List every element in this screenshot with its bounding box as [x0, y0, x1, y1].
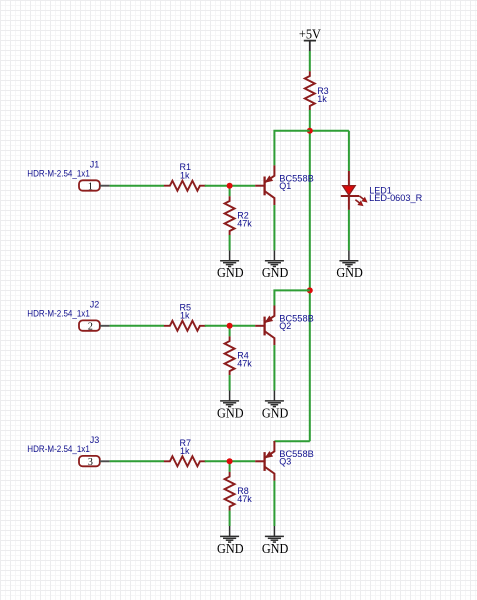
junction node at R7/R8/Q3 base — [227, 458, 233, 464]
svg-text:J3: J3 — [90, 435, 100, 445]
ground GND under Q2 — [262, 391, 289, 421]
wire Q2 collector to GND — [273, 345, 275, 390]
wire node to Q3 base — [230, 460, 256, 462]
ground GND under Q3 — [262, 526, 289, 556]
wire rail to Q2 emitter — [274, 290, 309, 305]
wire Q3 collector to GND — [273, 481, 275, 526]
resistor R5 1k — [164, 302, 206, 331]
resistor R3 1k — [305, 71, 329, 110]
ground GND under Q1 — [262, 250, 289, 280]
wire node to R2 — [229, 186, 231, 197]
svg-text:Q3: Q3 — [279, 457, 291, 467]
resistor R4 47k — [225, 336, 253, 375]
wire J3 pin to R7 — [110, 460, 164, 462]
wire R4 to GND — [229, 375, 231, 390]
svg-text:1k: 1k — [180, 171, 190, 181]
junction node rail to Q2 feed — [307, 287, 313, 293]
resistor R2 47k — [225, 196, 253, 235]
svg-text:47k: 47k — [237, 494, 252, 504]
junction node below R3 — [307, 128, 313, 134]
svg-text:LED-0603_R: LED-0603_R — [369, 193, 423, 203]
resistor R7 1k — [164, 438, 206, 467]
wire node to LED anode — [348, 131, 350, 171]
ground GND under R8 — [217, 526, 244, 556]
svg-text:1k: 1k — [180, 311, 190, 321]
svg-text:J2: J2 — [90, 300, 100, 310]
wire R7 to node — [205, 460, 230, 462]
svg-text:GND: GND — [262, 405, 289, 420]
transistor Q2 BC558B — [255, 306, 314, 346]
svg-text:47k: 47k — [237, 218, 252, 228]
svg-text:1: 1 — [88, 181, 93, 192]
wire R3 to rail node — [309, 110, 311, 131]
LED LED1 LED-0603_R — [341, 171, 423, 210]
wire R5 to node — [205, 325, 230, 327]
svg-text:HDR-M-2.54_1x1: HDR-M-2.54_1x1 — [27, 444, 90, 454]
svg-text:J1: J1 — [90, 160, 100, 170]
svg-text:47k: 47k — [237, 358, 252, 368]
wire rail to Q3 emitter — [274, 440, 309, 442]
svg-text:GND: GND — [217, 405, 244, 420]
svg-text:Q2: Q2 — [279, 321, 291, 331]
wire node to Q1 base — [230, 185, 256, 187]
resistor R1 1k — [164, 162, 206, 191]
connector J1 — [27, 160, 109, 193]
wire R8 to GND — [229, 511, 231, 526]
ground GND under LED — [336, 250, 363, 280]
svg-text:1k: 1k — [317, 94, 327, 104]
svg-text:GND: GND — [262, 541, 289, 556]
transistor Q1 BC558B — [255, 165, 314, 205]
svg-text:GND: GND — [217, 541, 244, 556]
wire R2 to GND — [229, 235, 231, 250]
wire J1 pin to R1 — [110, 185, 164, 187]
svg-text:HDR-M-2.54_1x1: HDR-M-2.54_1x1 — [27, 169, 90, 179]
svg-text:HDR-M-2.54_1x1: HDR-M-2.54_1x1 — [27, 309, 90, 319]
wire Q1 collector to GND — [273, 205, 275, 250]
connector J3 — [27, 435, 109, 468]
resistor R8 47k — [225, 472, 253, 511]
wire node to Q2 base — [230, 325, 256, 327]
ground GND under R4 — [217, 391, 244, 421]
wire rail to Q1 emitter — [274, 131, 309, 166]
transistor Q3 BC558B — [255, 441, 314, 481]
svg-text:GND: GND — [336, 265, 363, 280]
svg-text:GND: GND — [262, 265, 289, 280]
junction node at R1/R2/Q1 base — [227, 183, 233, 189]
wire R1 to node — [205, 185, 230, 187]
wire +5V to R3 — [309, 51, 311, 71]
wire node to R8 — [229, 461, 231, 472]
junction node at R5/R4/Q2 base — [227, 323, 233, 329]
ground GND under R2 — [217, 250, 244, 280]
wire node to R4 — [229, 326, 231, 337]
svg-text:3: 3 — [88, 457, 93, 468]
svg-text:GND: GND — [217, 265, 244, 280]
wire LED cathode to GND — [348, 210, 350, 251]
svg-text:1k: 1k — [180, 446, 190, 456]
wire rail node to LED branch — [310, 130, 349, 132]
power +5V — [299, 27, 321, 51]
wire J2 pin to R5 — [110, 325, 164, 327]
svg-text:+5V: +5V — [299, 27, 321, 42]
connector J2 — [27, 300, 109, 333]
svg-text:2: 2 — [88, 321, 93, 332]
wire main rail — [309, 131, 311, 442]
svg-text:Q1: Q1 — [279, 181, 291, 191]
